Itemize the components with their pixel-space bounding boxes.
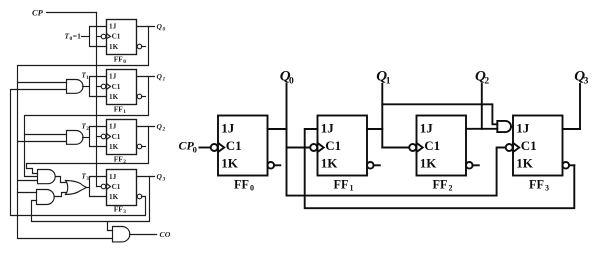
FF0 inverted output bubble bbox=[268, 162, 275, 169]
wire FF1 T-bar bbox=[90, 77, 107, 97]
AND gate A2 (T2 = Q1 AND Q0) bbox=[67, 131, 84, 145]
FF3 name label bbox=[114, 205, 126, 215]
wire AND1 output to FF1 T-bar bbox=[83, 86, 90, 88]
FF2 pin labels bbox=[109, 123, 121, 151]
wire Q1 to FF2 clock bubble bbox=[382, 147, 409, 149]
node Q0 label bbox=[280, 69, 294, 87]
node T1 label bbox=[82, 72, 90, 82]
flip-flop FF1 (left) box bbox=[107, 70, 137, 105]
FF3 pin labels bbox=[109, 173, 121, 201]
FF0 pin labels 1J C1 1K bbox=[109, 23, 121, 51]
FF0 inverted output bubble bbox=[137, 44, 142, 49]
svg-text:1K: 1K bbox=[221, 156, 239, 171]
flip-flop FF2 (right) box bbox=[417, 116, 467, 176]
svg-text:3: 3 bbox=[86, 176, 89, 182]
svg-text:1J: 1J bbox=[109, 123, 117, 131]
wire CO output to label bbox=[130, 234, 157, 236]
FF2 dynamic-input wedge bbox=[417, 143, 423, 152]
flip-flop FF0 (left) box bbox=[107, 20, 137, 55]
wire FF1 inverted output stub bbox=[142, 96, 146, 98]
svg-text:1J: 1J bbox=[109, 23, 117, 31]
node T3 label bbox=[82, 172, 90, 182]
wire clock stub to FF3 C1 bubble bbox=[97, 186, 101, 188]
wire FF2 inverted output stub bbox=[142, 146, 146, 148]
node Q3 vertical line bbox=[579, 84, 581, 129]
node Q1 label bbox=[376, 69, 390, 87]
wire Q3 feedback: down, across, up to AND3b input 2 bbox=[32, 177, 150, 222]
FF3 inverted output bubble bbox=[563, 162, 570, 169]
flip-flop FF1 (right) box bbox=[318, 116, 368, 176]
svg-text:C1: C1 bbox=[325, 138, 341, 153]
svg-text:C1: C1 bbox=[112, 133, 121, 141]
node CP0 input label bbox=[179, 139, 197, 155]
svg-text:1J: 1J bbox=[221, 120, 235, 135]
svg-text:1K: 1K bbox=[109, 93, 119, 101]
svg-text:1: 1 bbox=[123, 109, 126, 115]
svg-text:1J: 1J bbox=[109, 73, 117, 81]
wire FF3 inverted output stub to feedback bbox=[569, 164, 574, 166]
wire FF1 Q output to label bbox=[137, 76, 155, 78]
wire Q0 rail tap to AND1 input 1 bbox=[18, 82, 67, 84]
svg-text:C1: C1 bbox=[521, 138, 537, 153]
FF2 name label bbox=[114, 155, 126, 165]
svg-text:0: 0 bbox=[289, 77, 294, 87]
svg-text:1K: 1K bbox=[516, 156, 534, 171]
svg-text:0: 0 bbox=[123, 59, 126, 65]
FF1 name label bbox=[334, 178, 354, 193]
wire FF0 Q output to label bbox=[137, 26, 155, 28]
FF2 clock bubble bbox=[101, 134, 106, 139]
FF1 inverted output bubble bbox=[137, 94, 142, 99]
wire T0 input to FF0 T-bar bbox=[82, 36, 90, 38]
node Q3 label bbox=[574, 69, 588, 87]
node Q0 vertical line bbox=[286, 84, 288, 196]
OR gate O1 (T3) bbox=[66, 181, 87, 195]
flip-flop FF2 (left) box bbox=[107, 120, 137, 155]
wire FF0 inverted output stub bbox=[274, 164, 280, 166]
FF3 dynamic-input wedge bbox=[513, 143, 519, 152]
node T2 label bbox=[82, 122, 90, 132]
svg-text:0: 0 bbox=[193, 144, 197, 154]
wire FF0 T-bar (joins 1J and 1K) bbox=[90, 27, 107, 47]
svg-text:0: 0 bbox=[163, 26, 166, 32]
svg-text:3: 3 bbox=[545, 184, 549, 193]
FF0 clock bubble bbox=[101, 34, 106, 39]
wire Q0 rail tap to AND2 input 2 bbox=[18, 141, 67, 143]
wire clock stub to FF1 C1 bubble bbox=[97, 86, 101, 88]
FF1 dynamic-input wedge bbox=[107, 84, 111, 90]
FF0 dynamic-input wedge bbox=[107, 34, 111, 39]
wire Q1 rail tap to AND2 input 1 bbox=[25, 134, 67, 136]
FF3 dynamic-input wedge bbox=[107, 184, 111, 190]
node Q1 vertical line bbox=[381, 84, 383, 148]
wire AND output to FF3 1J bbox=[511, 126, 513, 128]
wire FF3 Q output to Q3 node bbox=[563, 128, 581, 130]
wire Q3 branch down to CO AND input 1 bbox=[108, 222, 113, 231]
wire FF2 T-bar bbox=[90, 127, 107, 147]
FF1 pin labels bbox=[321, 120, 341, 170]
wire Q0 to FF1 clock bubble bbox=[287, 147, 311, 149]
svg-text:1: 1 bbox=[163, 76, 166, 82]
svg-text:0: 0 bbox=[250, 184, 254, 193]
FF2 name label bbox=[433, 178, 453, 193]
svg-text:C1: C1 bbox=[424, 138, 440, 153]
FF0 clock bubble bbox=[211, 144, 218, 151]
wire FF0 Q output to Q0 node bbox=[268, 128, 287, 130]
wire FF1 Q output to Q1 node bbox=[367, 128, 382, 130]
svg-text:1J: 1J bbox=[109, 173, 117, 181]
wire AND2 output to FF2 T-bar bbox=[83, 137, 90, 139]
FF1 clock bubble bbox=[310, 144, 317, 151]
svg-text:1J: 1J bbox=[420, 120, 434, 135]
flip-flop FF3 (right) box bbox=[513, 116, 563, 176]
svg-text:1: 1 bbox=[86, 75, 89, 81]
FF3 pin labels bbox=[516, 120, 536, 170]
wire FF1 1J input from NOT-Q3 feedback bbox=[305, 129, 575, 208]
svg-text:FF: FF bbox=[234, 178, 249, 192]
wire Q0 feedback to FF3 clock bbox=[287, 148, 507, 196]
svg-text:FF: FF bbox=[114, 205, 124, 214]
wire OR output to FF3 T-bar bbox=[87, 187, 90, 189]
wire AND3b output to OR input 2 bbox=[55, 193, 67, 197]
svg-text:1K: 1K bbox=[109, 43, 119, 51]
AND gate A1 (T1 = Q0 AND NOT-Q3) bbox=[67, 80, 84, 94]
wire Q2 feedback staircase to AND3a input 1 bbox=[27, 127, 149, 174]
wire Q0 feedback: down, across top, down left rail, to CO gate input bbox=[18, 27, 149, 239]
FF3 clock bubble bbox=[101, 184, 106, 189]
FF3 name label bbox=[529, 178, 549, 193]
node Q2 vertical line bbox=[481, 84, 483, 129]
FF2 pin labels bbox=[420, 120, 440, 170]
node CO output label bbox=[160, 230, 171, 239]
wire Q1 to AND gate input 1 bbox=[382, 104, 497, 124]
wire FF3 Q output to label bbox=[137, 176, 155, 178]
wire NOT-Q3 feedback: stub, down, across bottom, up left rail to AND1 input 2 bbox=[11, 90, 146, 216]
svg-text:1J: 1J bbox=[516, 120, 530, 135]
AND gate CO (CO = Q0 AND Q3) bbox=[113, 227, 130, 242]
wire FF2 Q output to AND gate input 2 bbox=[466, 128, 497, 130]
svg-text:=1: =1 bbox=[73, 32, 81, 41]
wire CP horizontal from label to clock rail bbox=[47, 12, 97, 14]
node CP input label bbox=[32, 7, 44, 17]
FF1 pin labels bbox=[109, 73, 121, 101]
svg-text:1J: 1J bbox=[321, 120, 335, 135]
node Q1 output label (left) bbox=[157, 72, 166, 83]
FF2 inverted output bubble bbox=[466, 162, 473, 169]
node Q2 label bbox=[475, 69, 489, 87]
node Q0 output label (left) bbox=[157, 22, 166, 33]
FF1 clock bubble bbox=[101, 84, 106, 89]
wire Q0 rail tap to AND3a input 3 bbox=[18, 180, 38, 182]
FF0 dynamic-input wedge bbox=[218, 143, 224, 152]
AND gate U5 (Q1 AND Q2 to FF3 1J) bbox=[497, 121, 511, 132]
wire AND3a output to OR input 1 bbox=[56, 177, 67, 183]
svg-text:CO: CO bbox=[160, 230, 171, 239]
wire FF0 inverted output stub bbox=[142, 46, 146, 48]
svg-text:C1: C1 bbox=[112, 183, 121, 191]
wire FF1 inverted output stub bbox=[374, 164, 380, 166]
svg-text:3: 3 bbox=[123, 209, 126, 215]
node Q2 output label (left) bbox=[157, 122, 166, 133]
svg-text:FF: FF bbox=[433, 178, 448, 192]
wire FF2 inverted output stub bbox=[473, 164, 479, 166]
svg-text:3: 3 bbox=[584, 77, 589, 87]
wire clock stub to FF2 C1 bubble bbox=[97, 136, 101, 138]
FF0 name label bbox=[114, 55, 126, 65]
svg-text:2: 2 bbox=[123, 159, 126, 165]
svg-text:1K: 1K bbox=[109, 143, 119, 151]
svg-text:FF: FF bbox=[114, 55, 124, 64]
svg-text:C1: C1 bbox=[112, 33, 121, 41]
FF3 clock bubble bbox=[506, 144, 513, 151]
FF3 inverted output bubble bbox=[137, 194, 142, 199]
FF2 clock bubble bbox=[409, 144, 416, 151]
wire clock stub to FF0 C1 bubble bbox=[97, 36, 101, 38]
wire CP0 to FF0 clock bubble bbox=[200, 147, 212, 149]
wire Q0 rail tap to AND3b input 1 bbox=[18, 192, 37, 194]
svg-text:2: 2 bbox=[162, 126, 166, 132]
FF2 dynamic-input wedge bbox=[107, 134, 111, 140]
svg-text:2: 2 bbox=[86, 126, 89, 132]
svg-text:2: 2 bbox=[484, 77, 489, 87]
node Q3 output label (left) bbox=[157, 172, 166, 183]
node T0=1 label bbox=[65, 32, 82, 43]
wire FF2 Q output to label bbox=[137, 126, 155, 128]
svg-text:1K: 1K bbox=[420, 156, 438, 171]
FF0 pin labels 1J C1 1K bbox=[221, 120, 241, 170]
svg-text:1K: 1K bbox=[321, 156, 339, 171]
flip-flop FF3 (left) box bbox=[107, 170, 137, 206]
svg-text:FF: FF bbox=[529, 178, 544, 192]
svg-text:FF: FF bbox=[114, 105, 124, 114]
FF2 inverted output bubble bbox=[137, 144, 142, 149]
svg-text:C1: C1 bbox=[226, 138, 242, 153]
FF1 name label bbox=[114, 105, 126, 115]
FF0 name label bbox=[234, 178, 254, 193]
flip-flop FF0 (right) box bbox=[218, 116, 268, 176]
wire CP clock vertical rail x=96 bbox=[96, 13, 98, 187]
svg-text:FF: FF bbox=[334, 178, 349, 192]
svg-text:CP: CP bbox=[32, 7, 44, 17]
svg-text:C1: C1 bbox=[112, 83, 121, 91]
FF1 inverted output bubble bbox=[367, 162, 374, 169]
wire Q1 feedback rail bbox=[25, 77, 149, 177]
AND gate A3b (Q0 AND Q3) bbox=[37, 190, 55, 205]
svg-text:3: 3 bbox=[162, 176, 166, 182]
svg-text:1: 1 bbox=[386, 77, 391, 87]
svg-text:1K: 1K bbox=[109, 193, 119, 201]
FF1 dynamic-input wedge bbox=[318, 143, 324, 152]
svg-text:1: 1 bbox=[350, 184, 354, 193]
svg-text:FF: FF bbox=[114, 155, 124, 164]
AND gate A3a (Q2 AND Q1 AND Q0) bbox=[38, 170, 56, 184]
wire FF3 T-bar bbox=[90, 177, 107, 197]
svg-text:2: 2 bbox=[449, 184, 453, 193]
